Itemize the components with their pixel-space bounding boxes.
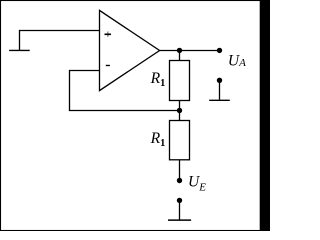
black sidebar right <box>260 0 270 231</box>
ground bottom bar <box>168 219 191 221</box>
terminal UA dot <box>217 48 222 53</box>
ground bottom dot <box>177 198 182 203</box>
op-amp U1 <box>100 10 160 90</box>
resistor R1 (lower) <box>170 121 190 160</box>
node B junction dot <box>177 108 182 113</box>
ground bottom stem <box>179 200 181 219</box>
wire R1 to R1 lower <box>179 101 181 121</box>
feedback wire from inverting input to node B <box>70 71 180 111</box>
ground right dot <box>217 78 222 83</box>
frame top border <box>0 0 262 1</box>
frame left border <box>0 0 1 231</box>
wire noninverting input to left <box>20 31 100 51</box>
wire R1 lower to UE terminal <box>179 160 181 181</box>
terminal UE dot <box>177 178 182 183</box>
op-amp plus input label <box>105 32 112 37</box>
black strip bottom edge <box>0 230 270 231</box>
node at output / R1 top <box>177 48 182 53</box>
ground right stem <box>219 80 221 99</box>
ground left bar <box>9 49 30 51</box>
output wire <box>160 50 220 52</box>
ground right bar <box>209 99 230 101</box>
wire node to R1 <box>179 51 181 61</box>
op-amp minus input label <box>106 65 110 66</box>
resistor R1 (upper) <box>170 61 190 101</box>
